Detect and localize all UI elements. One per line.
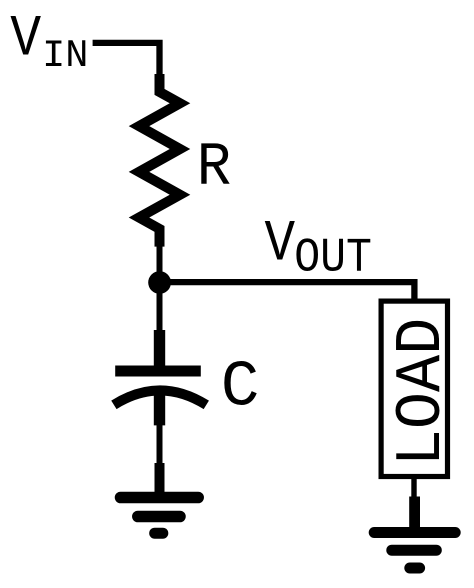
node VOUT label — [265, 212, 373, 285]
svg-text:OUT: OUT — [294, 231, 372, 286]
wire resistor to node — [157, 245, 163, 282]
wire node to LOAD — [160, 282, 415, 299]
svg-text:IN: IN — [42, 34, 88, 78]
wire capacitor to ground — [157, 424, 163, 464]
capacitor C top plate — [115, 366, 201, 377]
ground (right) bar 1 — [374, 527, 455, 538]
svg-text:LOAD: LOAD — [386, 318, 459, 467]
capacitor C bottom lead — [154, 391, 165, 425]
ground (left) bar 3 — [155, 528, 163, 539]
svg-text:R: R — [197, 133, 231, 202]
node junction dot — [148, 271, 171, 294]
capacitor C top lead — [154, 330, 165, 366]
wire from VIN to resistor — [93, 43, 160, 76]
svg-text:V: V — [265, 212, 296, 277]
ground (left) bar 2 — [138, 511, 180, 523]
ground (right) lead — [409, 497, 420, 533]
svg-text:C: C — [221, 351, 260, 424]
capacitor C bottom curved plate — [114, 390, 206, 405]
svg-text:V: V — [10, 5, 41, 72]
ground (left) lead — [155, 463, 165, 498]
resistor R — [139, 74, 180, 247]
ground (right) bar 2 — [392, 545, 437, 556]
node VIN label — [10, 5, 88, 78]
ground (right) bar 3 — [410, 563, 420, 574]
wire LOAD to ground — [411, 478, 416, 497]
load box — [381, 301, 447, 476]
ground (left) bar 1 — [121, 492, 199, 504]
wire node to capacitor — [157, 282, 163, 331]
